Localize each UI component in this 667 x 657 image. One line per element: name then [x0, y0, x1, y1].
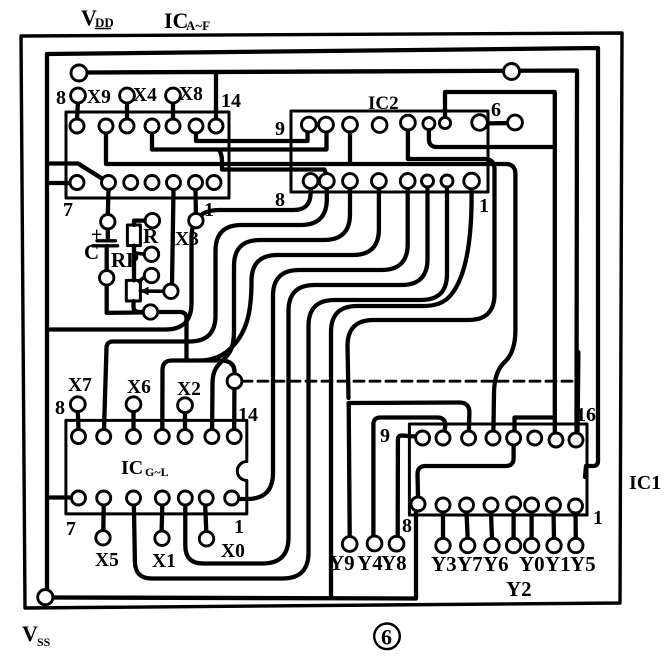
svg-text:7: 7	[63, 199, 73, 221]
svg-text:Y6: Y6	[483, 552, 509, 576]
svg-text:14: 14	[238, 404, 258, 426]
svg-text:C: C	[84, 240, 99, 264]
svg-text:Y9: Y9	[329, 551, 355, 575]
svg-text:Y4: Y4	[357, 551, 383, 575]
svg-text:X5: X5	[95, 550, 119, 571]
svg-text:9: 9	[275, 118, 285, 140]
svg-text:9: 9	[380, 425, 390, 447]
svg-text:X1: X1	[152, 551, 176, 572]
svg-text:Y1: Y1	[545, 552, 571, 576]
svg-text:R: R	[143, 224, 159, 248]
svg-text:RP: RP	[111, 248, 139, 272]
svg-text:X2: X2	[177, 379, 201, 400]
svg-text:IC: IC	[164, 8, 188, 33]
svg-text:X7: X7	[68, 375, 92, 396]
svg-text:16: 16	[576, 404, 596, 426]
svg-text:14: 14	[221, 90, 241, 112]
svg-text:8: 8	[402, 515, 412, 537]
svg-text:Y8: Y8	[381, 551, 407, 575]
svg-text:SS: SS	[37, 635, 51, 649]
svg-text:X6: X6	[127, 377, 151, 398]
svg-text:IC: IC	[121, 457, 143, 479]
svg-text:1: 1	[204, 199, 214, 221]
svg-text:7: 7	[66, 518, 76, 540]
svg-text:8: 8	[55, 397, 65, 419]
svg-text:8: 8	[275, 189, 285, 211]
svg-text:X9: X9	[87, 87, 111, 108]
svg-text:IC2: IC2	[368, 93, 399, 114]
svg-text:Y3: Y3	[431, 552, 457, 576]
svg-text:X0: X0	[221, 541, 245, 562]
svg-text:Y2: Y2	[506, 577, 532, 601]
svg-text:X3: X3	[175, 229, 199, 250]
svg-text:IC1: IC1	[629, 472, 661, 494]
svg-text:1: 1	[234, 516, 244, 538]
svg-text:X4: X4	[133, 85, 157, 106]
svg-text:1: 1	[479, 195, 489, 217]
svg-text:X8: X8	[179, 84, 203, 105]
svg-text:V: V	[22, 621, 38, 646]
svg-text:6: 6	[381, 625, 392, 650]
svg-text:Y0: Y0	[519, 552, 545, 576]
svg-text:1: 1	[593, 507, 603, 529]
svg-text:A~F: A~F	[186, 18, 210, 33]
svg-text:Y7: Y7	[457, 552, 483, 576]
svg-text:8: 8	[56, 87, 66, 109]
svg-text:6: 6	[491, 99, 501, 121]
svg-text:G~L: G~L	[145, 465, 169, 479]
svg-text:Y5: Y5	[570, 552, 596, 576]
